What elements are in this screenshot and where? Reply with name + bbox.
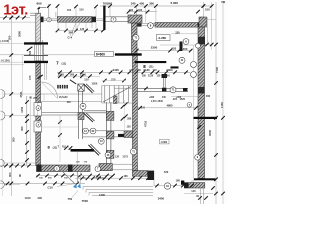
wire IW1 bottom jamb [137, 164, 139, 171]
dimension line left small [0, 64, 24, 66]
dimension line interior main [57, 71, 190, 73]
lintel short left of junction [118, 134, 124, 137]
wire partition room11 right b [84, 112, 106, 114]
ticks bottom mid dim [80, 176, 150, 180]
svg-text:120: 120 [129, 69, 134, 72]
wall right band [198, 27, 205, 178]
node circle 9 top [183, 39, 189, 45]
window circle w2 [36, 123, 41, 128]
wire furring line right [42, 40, 44, 63]
node circle 8 [148, 23, 154, 29]
wire partition room11 top a [41, 112, 79, 114]
svg-text:-0.300: -0.300 [160, 141, 167, 144]
wall right pier dark1 [198, 37, 205, 45]
black bar B6 right mid [194, 117, 218, 119]
svg-text:6=600: 6=600 [96, 53, 105, 57]
svg-text:400: 400 [139, 2, 144, 6]
node circle 13 [98, 138, 104, 144]
door leaf b [84, 114, 93, 123]
axis circle left D half [1, 181, 5, 189]
axis circle left B half [1, 111, 6, 120]
svg-text:5.000: 5.000 [171, 1, 179, 5]
tick partition left [144, 87, 148, 91]
node circle r2 [191, 72, 197, 78]
svg-text:2173: 2173 [123, 156, 129, 159]
node circle B small [196, 43, 201, 48]
wall cap bottom-center [148, 171, 155, 180]
ticks top row [47, 4, 214, 8]
wall left band mid [36, 61, 41, 103]
node circle 9 wall [195, 155, 201, 161]
wall corner block top-mid [128, 15, 142, 23]
level box -0.280 [157, 35, 171, 41]
black bar short right of room8 [171, 66, 179, 68]
svg-text:450: 450 [20, 126, 24, 131]
wall vertical interior IW1 upper [132, 23, 138, 55]
svg-text:120: 120 [127, 126, 132, 129]
node circle T door [95, 166, 101, 172]
wire band A stubs [57, 22, 59, 30]
wire room7 top line [0, 54, 115, 56]
window left w1 [34, 103, 42, 116]
dimension line right short [198, 44, 213, 46]
ticks porch dim [155, 184, 194, 188]
door swing arc room7 [42, 82, 58, 99]
svg-text:260: 260 [108, 2, 113, 6]
dimension line right room [171, 33, 198, 35]
node circle 12a [83, 128, 89, 134]
level box -0.300 [160, 139, 170, 144]
window left balcony glazing [35, 44, 37, 61]
wire right inner face [193, 45, 195, 183]
axis circle left C half [1, 159, 5, 166]
marker blue flag [73, 183, 77, 188]
axis line A [3, 93, 40, 95]
wire partition room11 top b [41, 114, 79, 116]
axis circle top window [47, 18, 51, 22]
svg-text:2130: 2130 [148, 76, 154, 78]
wall bottom-left band [37, 165, 91, 172]
black pier x181 [180, 42, 183, 52]
svg-text:+850: +850 [176, 97, 182, 99]
ticks top row2 [127, 10, 150, 14]
wall corner top-right block [199, 17, 207, 27]
svg-text:+150: +150 [94, 177, 100, 180]
svg-text:140: 140 [191, 189, 196, 193]
svg-text:750: 750 [68, 197, 73, 201]
wire stair left [101, 86, 103, 104]
svg-text:600: 600 [37, 2, 42, 6]
svg-text:720: 720 [164, 170, 169, 174]
wire porch left [153, 171, 155, 186]
wall left band lower [36, 132, 41, 166]
axis line v1 to circle [48, 4, 50, 17]
wire corridor line2 [41, 101, 102, 103]
dimension line interior second [57, 75, 100, 77]
block x108 c [106, 150, 114, 158]
svg-text:C-4: C-4 [68, 36, 73, 40]
wire partition mid b [83, 136, 133, 138]
foundation lines below bottom-right [200, 188, 202, 204]
opening diagonal left wall2 [38, 75, 43, 79]
leader arrowhead 600 [37, 7, 40, 10]
dimension column left b [29, 96, 31, 150]
wire partition room8 b [138, 90, 189, 92]
ticks bottom right lower [198, 186, 215, 200]
wall right pier dark2 [198, 87, 205, 94]
wall stub vertical room8 [162, 74, 164, 88]
wire dim v x124 [124, 100, 126, 131]
node circle r1 [191, 62, 197, 68]
svg-text:340: 340 [131, 2, 136, 6]
wall top-right band [155, 23, 201, 28]
black bar B4 [115, 53, 142, 55]
window left balcony [35, 44, 44, 61]
block x108 a [106, 111, 114, 120]
dimension line right edge v4 [222, 2, 224, 204]
svg-text:3000: 3000 [208, 130, 212, 136]
svg-text:120: 120 [153, 69, 158, 72]
wall top-left band [57, 17, 92, 23]
svg-text:1150: 1150 [20, 106, 24, 112]
ticks stair dim [103, 79, 126, 83]
svg-text:(11): (11) [53, 145, 58, 149]
ticks left mid [58, 120, 72, 150]
svg-text:460: 460 [206, 94, 211, 98]
dimension line top-left row [0, 17, 30, 19]
wire window bottom lines [113, 163, 133, 165]
wall cap bottom-right left end [184, 183, 188, 188]
wire stair landing line [114, 87, 133, 89]
svg-text:120: 120 [80, 28, 85, 31]
node circle T1 partition [170, 87, 176, 93]
node circle 7 [111, 17, 116, 22]
svg-text:1200: 1200 [92, 82, 98, 86]
svg-text:1эт.: 1эт. [3, 2, 28, 18]
dimension line bottom-left wall [0, 165, 36, 167]
window lines x142-155 [142, 22, 155, 24]
svg-text:1280: 1280 [99, 193, 105, 197]
dimension line top row1 [100, 5, 213, 7]
opening lines top x106-128 [106, 16, 129, 18]
dimension line bottom right [184, 193, 213, 195]
ticks bottom wall sub [36, 174, 115, 178]
wire porch right [191, 180, 193, 186]
wire jamb pair x44 [44, 63, 46, 80]
node circle T1 top [133, 35, 139, 41]
wall pier right of corner [137, 23, 141, 26]
dimension line right edge v3 [215, 2, 217, 204]
window top w1 lines [44, 18, 58, 20]
stair flight [102, 86, 133, 104]
wire jamb v x96 [95, 7, 97, 17]
svg-text:150: 150 [205, 7, 210, 11]
wire door diagonal bottom-left [62, 171, 76, 185]
wire jamb v x57.5 [57, 7, 59, 18]
svg-text:1150: 1150 [220, 102, 224, 108]
svg-text:170: 170 [28, 75, 32, 80]
wall cap bottom mid [68, 165, 73, 172]
svg-text:180: 180 [176, 178, 181, 182]
ticks extra right wall [196, 4, 205, 13]
wall interior v x108 [105, 102, 107, 164]
wire jamb v x92 [91, 22, 93, 28]
wall pier cap left of window1 [40, 17, 44, 23]
wall bottom-center horizontal [133, 171, 148, 177]
wall left band upper [36, 13, 41, 44]
wire partition room8 a [138, 87, 189, 89]
level box 6-600 [95, 52, 114, 57]
svg-text:ПВ: ПВ [222, 0, 226, 4]
ticks left edge v [10, 16, 14, 185]
door leaf c [88, 145, 99, 156]
svg-text:4710: 4710 [144, 120, 148, 127]
wall pier partition p1 [162, 88, 166, 92]
dimension column left a [26, 96, 28, 165]
dimension line bottom mid [75, 177, 154, 179]
svg-text:520: 520 [29, 50, 32, 55]
svg-text:360: 360 [70, 73, 75, 76]
dimension line right v2 [211, 2, 213, 50]
ticks interior second dim [58, 74, 92, 78]
svg-text:180: 180 [124, 175, 129, 178]
wall corner block bottom-right [181, 181, 184, 185]
wire partition mid a [83, 130, 133, 132]
wire left wall inner low [43, 94, 45, 102]
svg-text:120: 120 [115, 156, 120, 159]
chimney bar B3 [103, 6, 105, 31]
wall cap top-right [198, 23, 202, 28]
dimension line left v2 [22, 55, 24, 96]
svg-text:+860: +860 [149, 97, 155, 99]
wall bottom band2 [99, 164, 112, 171]
svg-text:2400: 2400 [113, 68, 120, 72]
svg-text:200: 200 [67, 101, 72, 104]
black bar B7 right low [194, 178, 216, 180]
black bar B1 balcony top [24, 42, 48, 44]
dimension line room8 bottom [132, 50, 192, 52]
wall block left of stair [114, 96, 118, 104]
wall pier top stub [162, 74, 168, 78]
wire sill line x24-48 [24, 55, 48, 57]
door leaf d [70, 80, 76, 84]
svg-text:280: 280 [127, 118, 132, 121]
node circle 9 small right [187, 103, 192, 108]
wire jamb v x156 [155, 6, 157, 23]
tick on right band [197, 125, 201, 129]
door leaf a [84, 85, 92, 93]
junction block room11 [78, 113, 84, 120]
wire jamb v x103 down [95, 22, 97, 31]
svg-text:2360: 2360 [166, 68, 173, 72]
svg-text:-0.280: -0.280 [158, 36, 167, 40]
wall left pier mid [36, 116, 41, 121]
node circle 10 porch [164, 183, 170, 189]
wall cap top-left band right [92, 17, 97, 23]
dimension line porch [154, 185, 193, 187]
svg-text:3531: 3531 [19, 91, 23, 97]
svg-text:160: 160 [129, 9, 134, 12]
wire top-left corner stub a [30, 12, 36, 14]
dimension line stair top [102, 80, 126, 82]
svg-text:600: 600 [8, 172, 12, 177]
ticks under top wall [56, 29, 105, 33]
wall interior v x79 [78, 91, 80, 112]
wire dim v x60 [59, 115, 61, 162]
wire C4 leader2 [70, 23, 76, 36]
svg-text:300: 300 [8, 35, 12, 40]
dimension line top row2 [129, 11, 158, 13]
svg-text:16,5x30: 16,5x30 [59, 96, 68, 99]
wire porch column lines [77, 172, 79, 184]
svg-text:290: 290 [38, 196, 43, 200]
ticks left column [25, 100, 29, 162]
svg-text:(11): (11) [149, 65, 154, 69]
dimension line bottom wall sub [36, 175, 114, 177]
ticks bottom-left wall dim [4, 164, 31, 168]
ticks IW1 left [121, 102, 128, 120]
svg-text:C10: C10 [48, 186, 54, 190]
wire right interior y45 [160, 44, 198, 46]
node circle 12b [90, 128, 96, 134]
axis line B [5, 115, 35, 117]
ticks bottom long dim [6, 182, 79, 186]
column block with X [78, 84, 84, 91]
svg-text:150: 150 [79, 8, 84, 11]
leader 600 vertical [38, 8, 40, 13]
svg-text:7130: 7130 [215, 67, 219, 73]
wire top-left corner stub b [30, 15, 36, 17]
axis circle on bottom wall [54, 166, 60, 172]
axis line C [4, 162, 36, 164]
ticks right edge [205, 43, 225, 196]
opening diagonal left wall [27, 47, 33, 51]
porch steps [83, 186, 153, 188]
wire partition room11 right a [84, 110, 106, 112]
wire leader x77 [76, 152, 78, 183]
wall cap bottom-left corner [37, 165, 42, 172]
wire top band riser v [55, 12, 57, 17]
node circle T1 bottom [130, 148, 136, 154]
svg-text:3400: 3400 [158, 197, 165, 201]
dimension line left edge v [10, 13, 12, 196]
black bar B2 balcony bottom [24, 61, 48, 63]
wire left elev line a [0, 42, 24, 44]
node circle 11 right [179, 57, 185, 63]
svg-text:1010: 1010 [25, 196, 31, 200]
axis line D [4, 184, 20, 186]
wall bottom-right band [184, 183, 205, 188]
wire jamb v x76 [75, 7, 77, 17]
svg-text:3080: 3080 [18, 31, 22, 37]
dimension line under top wall [57, 30, 105, 32]
svg-text:130: 130 [175, 30, 180, 34]
svg-text:7500: 7500 [82, 199, 89, 203]
black bar B8 bottom-left [71, 149, 95, 152]
wall interior v x79 lower [78, 120, 80, 140]
svg-text:300: 300 [149, 2, 154, 6]
dimension line top-left row2 [0, 21, 35, 23]
dimension line bottom long [0, 182, 85, 184]
ticks top-left row [3, 16, 26, 20]
wire corridor line1 [41, 93, 102, 95]
svg-text:500: 500 [12, 137, 16, 142]
window top w2 lines [96, 18, 103, 20]
dimension line room8 width [138, 107, 199, 109]
hatched lintel dashes y86 [57, 85, 68, 89]
wire right corner extra v [206, 17, 208, 44]
wall pier partition p2 [183, 88, 187, 92]
svg-text:150: 150 [67, 9, 72, 12]
svg-text:120: 120 [84, 78, 89, 82]
svg-text:2300: 2300 [151, 46, 158, 50]
svg-text:200: 200 [33, 97, 38, 100]
wall vertical IW1 lower [133, 55, 138, 171]
wire bottom left axis v [1, 90, 3, 196]
node circle 13b [105, 152, 111, 158]
node circle 11 room [80, 103, 86, 109]
ticks room8 width [138, 106, 198, 110]
wire jamb v x136 [135, 6, 137, 15]
window circle w1 [36, 106, 41, 111]
window left w2 [34, 121, 42, 132]
svg-text:180: 180 [137, 69, 142, 72]
wire left wall window sill lines [41, 44, 48, 46]
wire right interior y96 [171, 96, 198, 98]
black bar B5 [135, 61, 167, 63]
block x108 b [106, 131, 114, 139]
axis circle left A half [1, 90, 6, 99]
ticks interior main dim [58, 71, 188, 75]
junction block partition mid [124, 131, 133, 138]
svg-text:1400: 1400 [181, 47, 188, 51]
wire corridor low line [41, 126, 79, 128]
svg-text:2360: 2360 [165, 76, 171, 78]
wire jamb v x146 [145, 6, 147, 23]
wire right corner h stub [207, 19, 217, 21]
svg-text:400: 400 [138, 9, 143, 12]
svg-text:2320: 2320 [58, 72, 64, 76]
ticks room8 bottom dim [135, 49, 193, 53]
wire left elev line b [0, 61, 24, 63]
dimension line right v1 [202, 2, 204, 17]
svg-text:920: 920 [172, 46, 177, 50]
svg-text:1200: 1200 [80, 72, 86, 76]
svg-text:(11): (11) [62, 62, 67, 66]
svg-text:4860: 4860 [167, 104, 173, 108]
svg-text:210: 210 [111, 78, 116, 82]
wire jamb v x110 [109, 6, 111, 17]
window left w1 mullion [37, 103, 39, 116]
svg-text:1,50× 2640: 1,50× 2640 [151, 100, 164, 103]
